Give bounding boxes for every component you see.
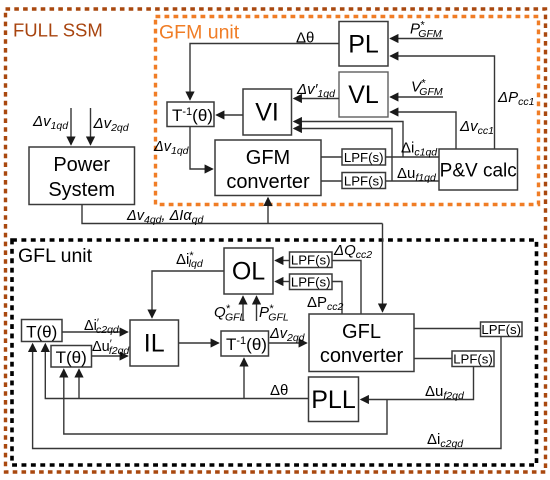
wire duf1qd LPF2 to P&V calc and VI bbox=[294, 129, 439, 182]
svg-text:Q*GFL: Q*GFL bbox=[214, 303, 246, 324]
wire dic2qd LPF to T1 bbox=[33, 337, 501, 449]
svg-text:GFM unit: GFM unit bbox=[159, 22, 240, 44]
wire GFL conv to right LPF bottom bbox=[414, 358, 452, 360]
wire Vgfm ref into VL bbox=[391, 96, 444, 98]
label dic2qd bbox=[427, 431, 464, 450]
svg-text:Δic1qd: Δic1qd bbox=[401, 140, 438, 159]
label dv2qd GFL bbox=[269, 326, 306, 344]
block VL bbox=[339, 72, 388, 117]
wire dtheta from PLL to T blocks bbox=[45, 344, 308, 399]
block GFL converter bbox=[309, 314, 414, 372]
svg-text:Δic2qd: Δic2qd bbox=[427, 431, 464, 450]
wire dv1qd input to Power System bbox=[70, 108, 72, 145]
label dilqd ref bbox=[176, 250, 204, 270]
svg-text:Power: Power bbox=[53, 154, 110, 176]
wire T2 to IL bbox=[92, 355, 128, 357]
block T-1(theta) GFL bbox=[221, 331, 269, 356]
svg-text:LPF(s): LPF(s) bbox=[291, 275, 331, 290]
svg-text:Δvcc1: Δvcc1 bbox=[459, 118, 494, 137]
svg-text:P*GFM: P*GFM bbox=[410, 20, 442, 41]
wire GFM conv to LPF1 bbox=[321, 156, 342, 158]
wire OL out to IL bbox=[152, 271, 224, 318]
svg-text:Δv1qd: Δv1qd bbox=[153, 139, 190, 157]
wire dtheta from PL to T-1 bbox=[190, 44, 339, 100]
svg-text:converter: converter bbox=[226, 171, 310, 193]
label dvcc1 bbox=[459, 118, 494, 137]
svg-text:FULL SSM: FULL SSM bbox=[13, 20, 103, 41]
label Vgfm ref bbox=[411, 78, 443, 99]
wire GFL conv to right LPF top bbox=[414, 328, 481, 330]
block PLL bbox=[309, 377, 359, 422]
svg-text:PL: PL bbox=[348, 31, 379, 59]
label dv1qd input bbox=[32, 113, 69, 132]
svg-text:OL: OL bbox=[232, 258, 265, 286]
wire dPcc2 from GFL conv to LPF bbox=[332, 282, 342, 315]
label FULL SSM bbox=[13, 20, 103, 41]
svg-text:Δv′1qd: Δv′1qd bbox=[296, 81, 336, 100]
svg-text:Δi*lqd: Δi*lqd bbox=[176, 250, 204, 270]
wire dv2qd input to Power System bbox=[90, 108, 92, 145]
label dic2qd' bbox=[84, 317, 120, 336]
svg-text:PLL: PLL bbox=[311, 386, 356, 414]
wire bus from Power System to converters bbox=[82, 198, 383, 312]
block PL bbox=[339, 22, 388, 67]
block IL bbox=[130, 320, 179, 366]
block VI bbox=[243, 89, 292, 135]
wire dv1qd' from VL to VI bbox=[294, 98, 339, 100]
block T(theta) 2 bbox=[51, 346, 92, 368]
label dQcc2 bbox=[333, 242, 372, 261]
block Power System bbox=[29, 147, 135, 205]
svg-text:VL: VL bbox=[348, 81, 379, 109]
block LPF(s) GFL upper2 bbox=[290, 274, 333, 290]
svg-text:LPF(s): LPF(s) bbox=[481, 322, 521, 337]
svg-text:GFM: GFM bbox=[246, 147, 290, 169]
svg-text:T(θ): T(θ) bbox=[26, 323, 57, 342]
GFM unit dashed border bbox=[156, 17, 539, 205]
svg-text:Δuf2qd: Δuf2qd bbox=[425, 383, 465, 402]
block LPF(s) GFM bottom bbox=[342, 173, 386, 189]
svg-text:P&V calc: P&V calc bbox=[440, 161, 517, 182]
wire LPF to OL upper1 bbox=[276, 260, 290, 262]
block LPF(s) GFL upper1 bbox=[290, 252, 333, 268]
svg-text:LPF(s): LPF(s) bbox=[291, 253, 331, 268]
GFL unit dashed border bbox=[12, 240, 537, 465]
wire LPF to OL upper2 bbox=[276, 281, 290, 283]
label Pgfm ref bbox=[410, 20, 442, 41]
svg-text:ΔQcc2: ΔQcc2 bbox=[333, 242, 372, 261]
svg-text:converter: converter bbox=[320, 345, 404, 367]
svg-text:Δu′f2qd: Δu′f2qd bbox=[92, 338, 130, 357]
wire dPcc1 from P&V calc to PL bbox=[391, 56, 495, 149]
label dtheta GFL bbox=[270, 382, 288, 399]
label dtheta GFM bbox=[296, 30, 314, 47]
svg-text:ΔPcc1: ΔPcc1 bbox=[497, 89, 534, 108]
svg-text:Δθ: Δθ bbox=[296, 30, 314, 47]
svg-text:LPF(s): LPF(s) bbox=[453, 352, 493, 367]
svg-text:T(θ): T(θ) bbox=[56, 348, 87, 367]
block T-1(theta) GFM bbox=[167, 102, 214, 127]
wire T-1 to GFM converter bbox=[190, 127, 213, 170]
label duf2qd' bbox=[92, 338, 130, 357]
block T(theta) 1 bbox=[22, 320, 63, 342]
svg-text:Δuf1qd: Δuf1qd bbox=[397, 165, 437, 184]
wire GFM conv to LPF2 bbox=[321, 180, 342, 182]
wire T1 to IL bbox=[62, 331, 128, 333]
svg-text:Δv2qd: Δv2qd bbox=[93, 115, 130, 134]
wire Pgfm ref into PL bbox=[391, 38, 444, 40]
wire T-1 GFL to GFL converter bbox=[269, 342, 307, 344]
svg-text:IL: IL bbox=[144, 330, 165, 358]
label dv1qd GFM bbox=[153, 139, 190, 157]
block OL bbox=[224, 248, 273, 294]
label dv2qd input bbox=[93, 115, 130, 134]
block GFM converter bbox=[215, 140, 321, 196]
block P&V calc bbox=[439, 149, 518, 190]
svg-text:Δθ: Δθ bbox=[270, 382, 288, 399]
svg-text:Δv4qd, ΔIαqd: Δv4qd, ΔIαqd bbox=[126, 208, 204, 226]
wire dic1qd LPF1 to P&V calc and VI bbox=[294, 122, 439, 158]
label duf2qd bbox=[425, 383, 465, 402]
svg-text:P*GFL: P*GFL bbox=[259, 303, 289, 324]
wire IL to T-1 GFL bbox=[179, 342, 219, 344]
label dPcc1 bbox=[497, 89, 534, 108]
wire VI to T-1 bbox=[217, 114, 244, 116]
wire Qgfl ref into OL bbox=[242, 297, 244, 322]
svg-text:T-1(θ): T-1(θ) bbox=[226, 335, 267, 354]
svg-text:GFL unit: GFL unit bbox=[18, 245, 93, 267]
label dic1qd bbox=[401, 140, 438, 159]
label Qgfl ref bbox=[214, 303, 246, 324]
label dv4qd dIaqd bbox=[126, 208, 204, 226]
svg-text:Δv1qd: Δv1qd bbox=[32, 113, 69, 132]
svg-text:V*GFM: V*GFM bbox=[411, 78, 443, 99]
block LPF(s) GFL right top bbox=[481, 322, 523, 337]
label GFM unit bbox=[159, 22, 240, 44]
block LPF(s) GFL right bottom bbox=[452, 351, 494, 367]
wire Pgfl ref into OL bbox=[256, 297, 258, 322]
block LPF(s) GFM top bbox=[342, 149, 386, 165]
label dPcc2 bbox=[307, 294, 344, 313]
svg-text:Δi′c2qd: Δi′c2qd bbox=[84, 317, 120, 336]
svg-text:T-1(θ): T-1(θ) bbox=[172, 106, 213, 125]
svg-text:ΔPcc2: ΔPcc2 bbox=[307, 294, 344, 313]
wire dQcc2 from GFL conv to LPF bbox=[332, 261, 361, 315]
label GFL unit bbox=[18, 245, 93, 267]
svg-text:GFL: GFL bbox=[342, 321, 381, 343]
wire dvcc1 from P&V calc to VL bbox=[391, 112, 457, 149]
svg-text:LPF(s): LPF(s) bbox=[344, 174, 384, 189]
label Pgfl ref bbox=[259, 303, 289, 324]
svg-text:Δv2qd: Δv2qd bbox=[269, 326, 306, 344]
label dv1qd' bbox=[296, 81, 336, 100]
wire duf2qd LPF to PLL and T2 bbox=[64, 367, 474, 435]
svg-text:System: System bbox=[48, 179, 115, 201]
label duf1qd bbox=[397, 165, 437, 184]
svg-text:VI: VI bbox=[255, 99, 279, 127]
svg-text:LPF(s): LPF(s) bbox=[344, 150, 384, 165]
